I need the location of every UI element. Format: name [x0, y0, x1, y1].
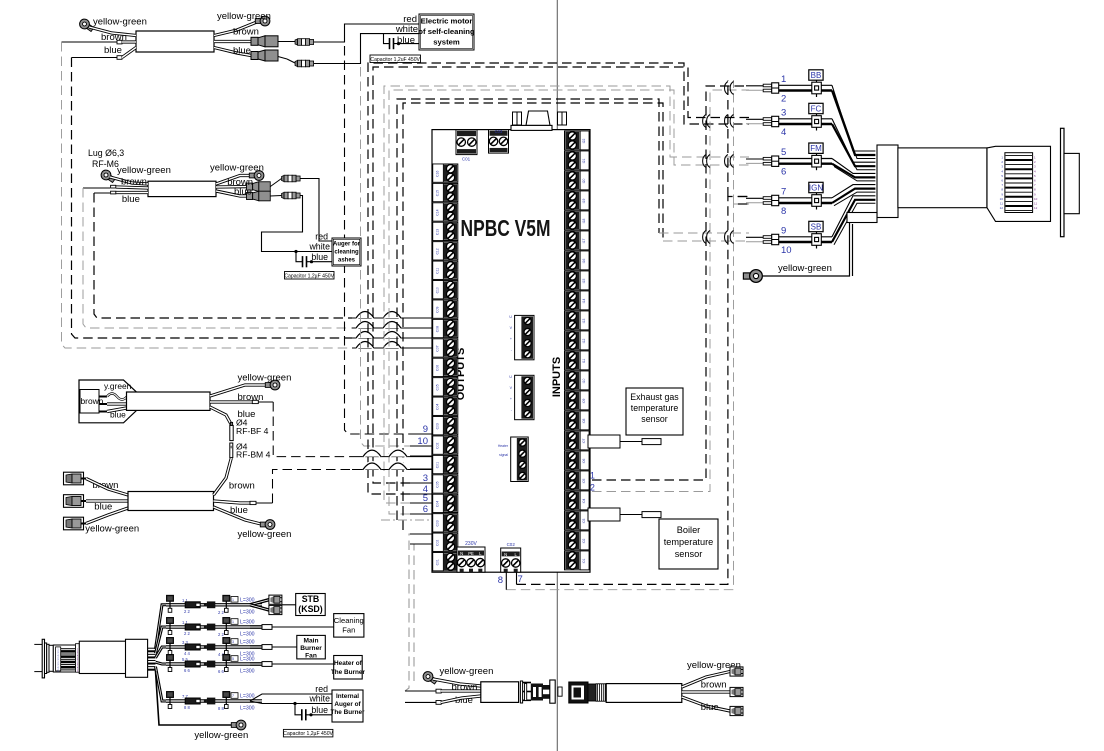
terminal block C01 (top) — [456, 130, 477, 155]
spade connector A1 brown — [251, 36, 278, 47]
svg-text:I16: I16 — [582, 259, 586, 264]
junction blue — [310, 260, 313, 263]
wire row5 white — [250, 701, 332, 704]
wire A1-brown lead — [62, 41, 118, 43]
capacitor label — [283, 729, 333, 737]
wire A2 yellow-green left — [110, 177, 148, 184]
svg-text:8 8: 8 8 — [218, 706, 224, 711]
row FM pair wire — [779, 158, 832, 160]
label box SB — [809, 221, 823, 231]
cable route A line2 (dashed) — [368, 63, 749, 494]
capacitor C-auger2 — [301, 709, 303, 720]
svg-text:I09: I09 — [582, 399, 586, 404]
svg-text:C09: C09 — [436, 306, 440, 312]
wire row1 fork up — [250, 600, 269, 605]
row FC lead wires — [746, 118, 763, 120]
wire spade-to-splice — [270, 179, 281, 187]
wire H2 yellow-green — [763, 223, 850, 277]
cable route pin8-row4 (dashed) — [506, 204, 749, 590]
svg-text:C10: C10 — [436, 287, 440, 293]
wire hop at (365,348) — [356, 342, 374, 349]
svg-text:5: 5 — [423, 493, 428, 504]
wire cap to blue — [306, 714, 332, 716]
harness H2 bundle wires — [832, 85, 875, 151]
svg-text:Main: Main — [303, 638, 318, 645]
svg-text:yellow-green: yellow-green — [85, 524, 139, 535]
cable sleeve H1 — [79, 641, 139, 673]
wire A5 brown lead — [405, 690, 436, 692]
cable route C line1 (dashed) — [397, 99, 659, 520]
svg-text:brown: brown — [701, 680, 727, 691]
svg-text:I02: I02 — [582, 539, 586, 544]
ring terminal A2 yellow-green right — [249, 171, 264, 181]
svg-text:Fan: Fan — [305, 653, 317, 660]
wire A4 yellow-green right — [214, 507, 264, 525]
wire spade-to-splice white — [278, 57, 287, 60]
wire hop at (365,328) — [356, 322, 374, 329]
svg-text:Internal: Internal — [336, 693, 359, 700]
svg-text:PE: PE — [468, 551, 474, 556]
connector A6 spade brown — [730, 687, 743, 696]
wire H1 yellow-green — [156, 671, 235, 725]
cable route input2 (dashed) — [592, 90, 749, 492]
capacitor label — [285, 272, 335, 280]
wire A3 blue right — [210, 407, 232, 425]
svg-text:C05: C05 — [436, 384, 440, 390]
cable route A line1 (dashed) — [373, 67, 749, 483]
svg-text:Boiler: Boiler — [677, 525, 701, 535]
cable sleeve A4 — [128, 492, 214, 511]
electric motor box — [419, 14, 474, 50]
label box BB — [809, 70, 823, 80]
svg-text:8: 8 — [781, 206, 786, 217]
row FM splice component — [812, 155, 822, 167]
svg-text:5: 5 — [232, 657, 234, 661]
cable route B line1 (dashed) — [384, 86, 749, 503]
wire A1 blue right — [214, 48, 251, 56]
svg-text:L=300: L=300 — [240, 706, 255, 712]
svg-text:I20: I20 — [582, 179, 586, 184]
wire hop at (392,338) — [383, 332, 401, 339]
wire A1 yellow-green right — [214, 22, 258, 36]
connector A5 plug — [520, 681, 522, 703]
wire A2 blue left — [116, 191, 148, 194]
svg-text:red: red — [315, 232, 328, 242]
svg-text:blue: blue — [234, 187, 252, 198]
wire hop at (392,328) — [383, 322, 401, 329]
connector row1 spade A — [269, 595, 282, 604]
harness row4 cable — [166, 662, 215, 664]
terminal A1 brown left — [117, 40, 122, 44]
svg-text:Exhaust gas: Exhaust gas — [630, 392, 679, 402]
spade connector A2 blue — [247, 191, 271, 201]
svg-text:10: 10 — [1000, 197, 1004, 201]
wire row2 tail — [250, 625, 262, 627]
terminal block 230V — [457, 547, 485, 572]
svg-text:L=300: L=300 — [240, 657, 255, 663]
svg-text:blue: blue — [701, 702, 719, 713]
wire row1 fork down — [250, 605, 269, 610]
wire run into outputs y=338 — [352, 337, 432, 339]
svg-text:2: 2 — [781, 94, 786, 105]
terminal block C02 — [501, 548, 521, 572]
splice white — [295, 60, 314, 67]
svg-text:9: 9 — [781, 226, 786, 237]
cable sleeve H2 — [898, 148, 987, 208]
splice auger red — [282, 175, 301, 182]
svg-text:I21: I21 — [582, 159, 586, 164]
svg-text:7: 7 — [781, 187, 786, 198]
svg-text:3: 3 — [232, 640, 234, 644]
svg-text:C02: C02 — [436, 442, 440, 448]
svg-text:blue: blue — [311, 705, 328, 715]
row BB splice component — [812, 82, 822, 94]
wire A3 brown right — [210, 400, 252, 403]
wire crossing hop x733.5 y=121 — [730, 115, 733, 128]
wire crossing hop x706 y=237 — [703, 231, 706, 244]
connector H1 pins — [61, 648, 76, 650]
svg-text:+: + — [510, 337, 512, 341]
wire squiggle y.green — [107, 394, 132, 400]
svg-text:I07: I07 — [582, 439, 586, 444]
svg-text:C05: C05 — [436, 481, 440, 487]
row FM lead tips — [763, 157, 772, 160]
ring terminal A2 yellow-green left — [99, 168, 117, 184]
svg-text:Fan: Fan — [342, 626, 355, 635]
wire A3 blue pin — [107, 408, 127, 412]
connector row1 spade B — [269, 605, 282, 614]
wire hop at (365,338) — [356, 332, 374, 339]
wire hop at (365,318) — [356, 312, 374, 319]
svg-text:10: 10 — [417, 436, 428, 447]
svg-text:3: 3 — [781, 108, 786, 119]
svg-text:red: red — [315, 684, 328, 694]
svg-text:10: 10 — [781, 245, 792, 256]
connector A6 plug — [569, 682, 588, 703]
row FM plug — [772, 156, 779, 166]
svg-text:temperature: temperature — [631, 403, 679, 413]
svg-text:7: 7 — [518, 574, 523, 585]
svg-text:C03: C03 — [436, 423, 440, 429]
row SB lead tips — [763, 236, 772, 239]
svg-text:I11: I11 — [582, 359, 586, 364]
svg-text:IGN: IGN — [809, 183, 823, 192]
svg-text:C04: C04 — [436, 501, 440, 507]
svg-text:white: white — [308, 242, 330, 252]
svg-text:yellow-green: yellow-green — [210, 163, 264, 174]
row SB plug — [772, 234, 779, 244]
bullet connector RF-BF4 — [230, 425, 233, 440]
wire auger white — [262, 196, 333, 252]
row BB lead tips — [763, 84, 772, 87]
svg-text:2 2: 2 2 — [218, 610, 224, 615]
splice auger white — [282, 192, 301, 199]
capacitor C-auger — [302, 256, 304, 267]
heater box — [334, 656, 363, 680]
junction white — [293, 702, 296, 705]
svg-text:1: 1 — [590, 471, 595, 481]
connector H1 exit wires — [148, 647, 156, 649]
svg-text:FC: FC — [811, 104, 822, 113]
svg-text:8 8: 8 8 — [184, 705, 190, 710]
capacitor C-motor — [389, 38, 391, 49]
svg-text:Cleaning: Cleaning — [334, 616, 364, 625]
row FM lead wires — [746, 158, 763, 160]
wire hop at (372,469) — [363, 463, 381, 470]
svg-text:C15: C15 — [436, 190, 440, 196]
wire white to motor — [314, 34, 419, 64]
wire H2 yellow-green outline — [852, 224, 854, 276]
spade connector A1 blue — [251, 50, 278, 61]
svg-text:C14: C14 — [436, 209, 440, 215]
connector H2 flange — [1061, 128, 1065, 236]
connector H1 mount stubs — [34, 643, 42, 645]
row BB pair wire — [779, 84, 832, 86]
svg-text:12: 12 — [1000, 206, 1004, 210]
svg-text:system: system — [433, 38, 460, 47]
svg-text:7: 7 — [232, 694, 234, 698]
connector H2 pin window — [1005, 153, 1033, 213]
wire A4 brown left — [86, 479, 128, 496]
cable sleeve A3 — [127, 392, 211, 410]
svg-text:1: 1 — [232, 620, 234, 624]
input sensor stub 2 — [588, 508, 620, 521]
wire capacitor to blue — [307, 261, 333, 263]
svg-text:yellow-green: yellow-green — [93, 17, 147, 28]
main burner fan box — [297, 635, 326, 659]
wire run into outputs y=328 — [352, 327, 432, 329]
wire A4 yellow-green left — [86, 508, 128, 524]
svg-text:U: U — [509, 375, 512, 379]
svg-text:3: 3 — [423, 473, 428, 484]
svg-text:L=300: L=300 — [240, 669, 255, 675]
svg-text:The Burner: The Burner — [331, 669, 366, 676]
terminal A2 brown — [111, 185, 116, 188]
svg-text:L=300: L=300 — [240, 620, 255, 626]
wire spade-to-splice red — [278, 41, 295, 43]
wire crossing hop x710 y=161 — [707, 155, 710, 168]
exhaust gas sensor box — [626, 388, 683, 435]
wire A6 yellow-green — [682, 672, 730, 688]
cable route B line2 (dashed) — [389, 90, 749, 514]
svg-text:C02: C02 — [436, 540, 440, 546]
svg-text:6: 6 — [781, 167, 786, 178]
wire auger red — [301, 179, 333, 242]
svg-text:I15: I15 — [582, 279, 586, 284]
ring terminal A3 yellow-green — [265, 380, 280, 390]
wire A5 blue lead — [405, 701, 436, 703]
wire run into outputs y=318 — [352, 317, 432, 319]
svg-text:C16: C16 — [436, 170, 440, 176]
svg-text:Heater of: Heater of — [334, 660, 363, 667]
svg-text:blue: blue — [122, 194, 140, 205]
svg-text:SB: SB — [811, 222, 822, 231]
svg-text:2 2: 2 2 — [184, 609, 190, 614]
wire hop at (398,469) — [389, 463, 407, 470]
wire crossing hop x733.5 y=237 — [730, 231, 733, 244]
connector H1 backshell — [126, 639, 148, 677]
svg-text:C13: C13 — [436, 229, 440, 235]
svg-text:ashes: ashes — [338, 258, 356, 264]
svg-text:11: 11 — [1000, 202, 1003, 206]
svg-text:yellow-green: yellow-green — [778, 263, 832, 274]
svg-text:blue: blue — [104, 45, 122, 56]
wire A3 yellow-green right — [210, 385, 268, 396]
svg-text:sensor: sensor — [675, 549, 703, 559]
harness row3 cable — [166, 645, 215, 647]
row FC plug — [772, 116, 779, 126]
svg-text:NPBC V5M: NPBC V5M — [461, 215, 551, 241]
svg-text:I06: I06 — [582, 459, 586, 464]
svg-text:6 6: 6 6 — [184, 668, 190, 673]
wire motor-red route (dashed) — [345, 46, 411, 434]
wire capacitor branch — [296, 252, 303, 262]
svg-text:I03: I03 — [582, 519, 586, 524]
wire A3-brown run — [352, 456, 432, 458]
svg-text:C11: C11 — [436, 268, 440, 274]
svg-text:BB: BB — [811, 71, 822, 80]
wire red to motor — [314, 24, 419, 42]
svg-text:yellow-green: yellow-green — [440, 666, 494, 677]
row IGN lead wires — [746, 197, 763, 199]
svg-text:C02: C02 — [507, 542, 516, 547]
wire row5 cap branch — [295, 704, 302, 715]
svg-text:L=300: L=300 — [240, 694, 255, 700]
svg-text:RF-M6: RF-M6 — [92, 159, 119, 169]
svg-text:12: 12 — [1034, 206, 1038, 210]
wire A2 brown right — [216, 185, 247, 189]
svg-text:9: 9 — [423, 424, 428, 435]
wire capacitor branch — [384, 34, 390, 44]
splice red — [295, 39, 314, 46]
label box IGN — [809, 182, 823, 192]
svg-text:I10: I10 — [582, 379, 586, 384]
ring terminal H2 yellow-green — [743, 270, 762, 283]
wire A4-blue run — [352, 469, 432, 471]
plug inner A3 — [80, 390, 99, 414]
svg-text:blue: blue — [311, 252, 328, 262]
svg-text:(KSD): (KSD) — [298, 604, 323, 614]
wire hop at (398,456) — [389, 450, 407, 457]
wire hop at (392,318) — [383, 312, 401, 319]
svg-text:INPUTS: INPUTS — [551, 357, 563, 397]
output stub wires — [410, 433, 432, 435]
cable route C line2 (dashed) — [403, 103, 663, 530]
svg-text:The Burner: The Burner — [330, 709, 365, 716]
cable sleeve A1 — [136, 31, 214, 52]
ring terminal A5 yellow-green — [421, 670, 439, 686]
spade connector A4 brown — [64, 472, 84, 485]
svg-text:C03: C03 — [495, 129, 503, 134]
spade connector A2 brown — [247, 182, 271, 192]
row IGN splice component — [812, 195, 822, 207]
board outline — [432, 130, 590, 573]
cable sleeve A6 — [606, 684, 682, 703]
wire A5 blue — [441, 696, 481, 702]
connector H1 collar — [45, 643, 47, 674]
svg-text:brown: brown — [233, 27, 259, 38]
wire crossing hop x706 y=121 — [703, 115, 706, 128]
cable sleeve A5 — [481, 682, 519, 703]
row IGN pair wire — [779, 197, 832, 199]
svg-text:yellow-green: yellow-green — [217, 11, 271, 22]
svg-text:Auger of: Auger of — [334, 701, 361, 708]
wire A1 brown right — [214, 40, 251, 43]
row SB splice component — [812, 234, 822, 246]
svg-text:1: 1 — [781, 74, 786, 85]
connector H2 boss — [1064, 153, 1079, 213]
harness H1 fan-out wires — [156, 605, 167, 649]
cleaning fan box — [334, 614, 364, 638]
connector H2 backshell — [877, 145, 898, 218]
svg-text:RF-BM 4: RF-BM 4 — [236, 450, 271, 460]
connector H1 label strip A — [56, 647, 61, 671]
svg-text:1: 1 — [232, 598, 234, 602]
wire A4 blue left — [86, 499, 128, 502]
wire crossing hop x710 y=121 — [707, 115, 710, 128]
row IGN plug — [772, 195, 779, 205]
wire A2 blue right — [216, 191, 247, 196]
svg-text:FM: FM — [810, 144, 822, 153]
terminal A4 blue — [250, 501, 256, 504]
junction blue — [397, 42, 400, 45]
row BB lead wires — [746, 85, 763, 87]
svg-text:I19: I19 — [582, 199, 586, 204]
svg-text:10: 10 — [1034, 197, 1038, 201]
wire A1 brown left — [122, 40, 136, 43]
svg-text:I18: I18 — [582, 219, 586, 224]
svg-text:Capacitor 1,2uF 450V: Capacitor 1,2uF 450V — [370, 57, 420, 63]
label box FC — [809, 103, 823, 113]
svg-text:+: + — [510, 397, 512, 401]
wire motor-white route (dashed) — [361, 67, 411, 446]
page fold line — [556, 0, 558, 751]
svg-text:C01: C01 — [436, 462, 440, 468]
svg-text:2 2: 2 2 — [218, 632, 224, 637]
input sensor stub 1 — [588, 435, 620, 448]
svg-text:C01: C01 — [462, 157, 471, 162]
terminal A2 blue — [111, 191, 116, 194]
svg-text:white: white — [308, 694, 330, 704]
row FC splice component — [812, 116, 822, 128]
svg-text:yellow-green: yellow-green — [194, 730, 248, 741]
cable route input1 (dashed) — [592, 86, 749, 480]
spade connector A4 yellow-green — [64, 517, 84, 530]
wire A2 yellow-green right — [216, 176, 252, 185]
junction white — [294, 250, 297, 253]
junction blue — [309, 713, 312, 716]
wire pin8 — [505, 572, 507, 590]
ring terminal A1 yellow-green right — [255, 16, 270, 26]
svg-text:brown: brown — [229, 481, 255, 492]
svg-text:I04: I04 — [582, 499, 586, 504]
cable route row5 approach (dashed) — [659, 232, 749, 234]
wire A1 yellow-green left — [89, 27, 136, 36]
row FC pair wire — [779, 118, 832, 120]
wire run into outputs y=348 — [352, 347, 432, 349]
internal auger box — [332, 690, 363, 722]
wire crossing hop x727.9 y=237 — [725, 231, 728, 244]
wire hop at (392,348) — [383, 342, 401, 349]
svg-text:I08: I08 — [582, 419, 586, 424]
terminal block C24 (middle) — [515, 315, 534, 359]
wire A5 brown — [441, 689, 481, 692]
svg-text:6 6: 6 6 — [218, 669, 224, 674]
DB9 connector — [526, 111, 550, 125]
harness row1 cable — [166, 603, 215, 605]
wire A2 brown left — [116, 187, 148, 188]
svg-text:sensor: sensor — [641, 414, 667, 424]
